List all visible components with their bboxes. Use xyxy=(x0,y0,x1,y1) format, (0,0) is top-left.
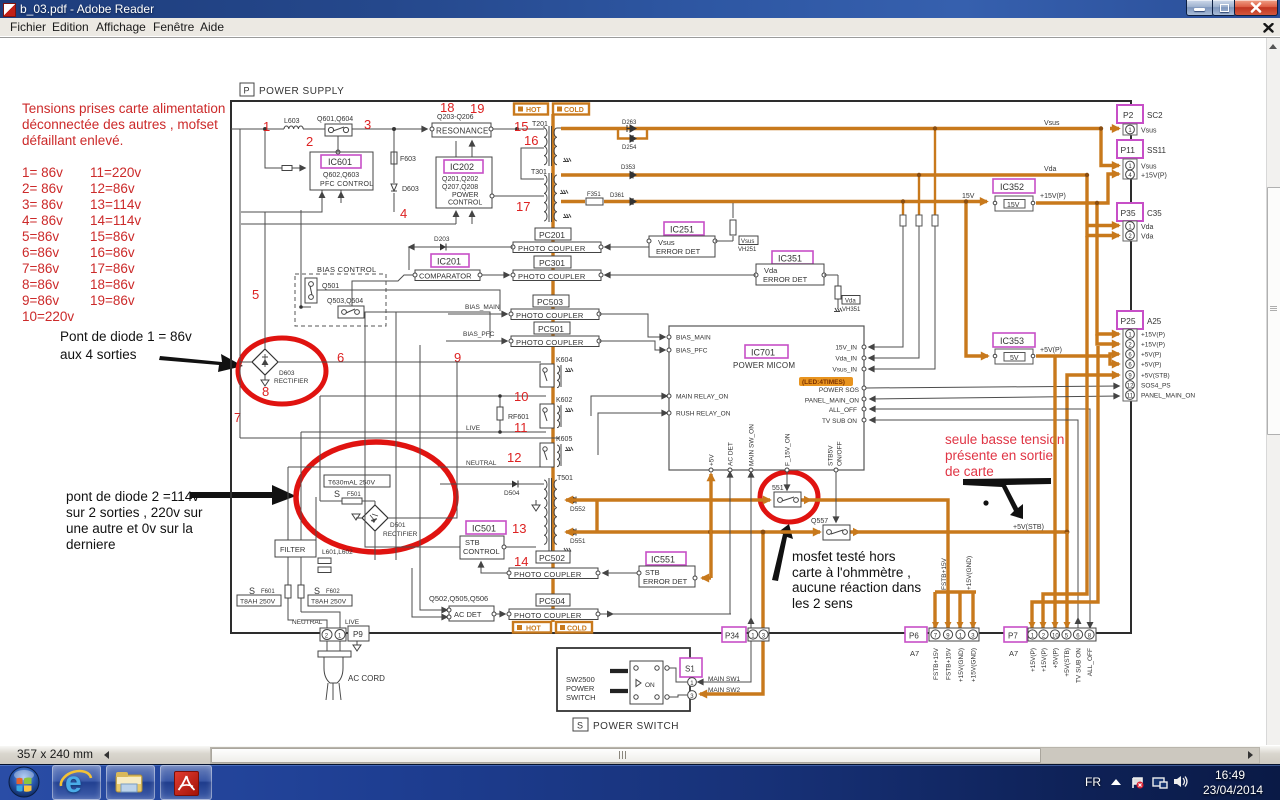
svg-text:PHOTO COUPLER: PHOTO COUPLER xyxy=(518,272,586,281)
junction dots top xyxy=(263,127,267,131)
wire bias_main xyxy=(448,313,507,315)
svg-text:PHOTO COUPLER: PHOTO COUPLER xyxy=(514,611,582,620)
wire: resonance to T201 xyxy=(491,128,544,130)
svg-text:RESONANCE: RESONANCE xyxy=(436,127,488,136)
svg-text:D203: D203 xyxy=(434,236,450,243)
wires filter to fuses xyxy=(288,557,301,620)
orange +5V(STB) riser to P25 pin9 xyxy=(1067,375,1119,532)
svg-text:7=86v: 7=86v xyxy=(22,261,59,276)
orange riser to P7 pin2 xyxy=(1043,236,1087,628)
svg-text:T8AH 250V: T8AH 250V xyxy=(240,599,276,606)
svg-text:MAIN SW_ON: MAIN SW_ON xyxy=(749,424,756,466)
svg-text:VH251: VH251 xyxy=(738,247,757,253)
IC701 bottom pins xyxy=(709,424,844,472)
wires P9 to fuses xyxy=(301,612,340,628)
vertical scrollbar xyxy=(1266,38,1280,745)
wire: resonance input xyxy=(422,128,427,130)
svg-text:+15V(P): +15V(P) xyxy=(1040,193,1066,200)
orange riser to P7 pin1 xyxy=(1032,346,1098,628)
diode D263 xyxy=(622,120,637,132)
svg-text:P34: P34 xyxy=(725,632,740,641)
opto PC201 xyxy=(535,228,571,240)
wire POWER SOS to P25 pin12 xyxy=(866,386,1119,388)
IC701 left pins xyxy=(667,335,731,418)
wire LIVE line xyxy=(301,432,546,540)
svg-text:P: P xyxy=(244,86,250,96)
svg-text:HOT: HOT xyxy=(526,626,542,633)
svg-text:ON: ON xyxy=(645,682,655,689)
svg-text:POWER SWITCH: POWER SWITCH xyxy=(593,721,679,732)
black arrow to +5V(STB) xyxy=(963,478,1051,519)
svg-text:P7: P7 xyxy=(1008,632,1018,641)
diode D603 zener xyxy=(391,184,419,193)
svg-text:2= 86v: 2= 86v xyxy=(22,181,63,196)
orange riser to P7 pin5 xyxy=(1065,532,1068,628)
wire ALL_OFF loop to P7 pin8 xyxy=(870,409,1090,628)
sense fuse boxes xyxy=(900,215,938,226)
fuse T630mAL box xyxy=(324,475,390,487)
isolation barrier orange vertical xyxy=(551,114,554,622)
orange F_15V rail through S51 xyxy=(566,498,770,501)
wire: branch to IC601 xyxy=(265,129,305,168)
svg-text:S1: S1 xyxy=(685,665,695,674)
AC cord plug xyxy=(324,641,385,700)
opto PC502 xyxy=(536,551,570,563)
wire STB5V drop xyxy=(835,472,837,522)
black arrow to D603 circle xyxy=(159,354,243,372)
AC cord strain bar xyxy=(318,651,351,657)
junction dots orange xyxy=(901,126,1103,205)
svg-text:12=86v: 12=86v xyxy=(90,181,135,196)
svg-text:RECTIFIER: RECTIFIER xyxy=(383,531,418,538)
svg-text:PC503: PC503 xyxy=(537,297,563,307)
ground under D603 xyxy=(261,375,269,386)
opto PC504 xyxy=(536,594,570,606)
connector P2 xyxy=(1117,105,1163,135)
svg-text:PANEL_MAIN_ON: PANEL_MAIN_ON xyxy=(1141,393,1195,400)
svg-text:10: 10 xyxy=(1052,634,1059,640)
connector P7 xyxy=(1004,627,1096,658)
svg-text:IC201: IC201 xyxy=(437,257,461,267)
svg-text:seule basse tension: seule basse tension xyxy=(945,432,1064,447)
svg-text:IC701: IC701 xyxy=(751,348,775,358)
orange diode loop D263 D254 xyxy=(618,129,647,139)
transformer T201 xyxy=(532,121,571,166)
wire opto4 to IC701 xyxy=(599,341,665,350)
svg-text:F603: F603 xyxy=(400,156,416,163)
svg-text:+5V(STB): +5V(STB) xyxy=(1013,524,1044,531)
svg-text:P2: P2 xyxy=(1123,110,1134,120)
svg-text:BIAS_MAIN: BIAS_MAIN xyxy=(465,304,500,311)
svg-text:P11: P11 xyxy=(1121,145,1136,155)
svg-text:15=86v: 15=86v xyxy=(90,229,135,244)
svg-text:18=86v: 18=86v xyxy=(90,277,135,292)
svg-text:POWER SUPPLY: POWER SUPPLY xyxy=(259,86,344,97)
svg-text:ALL_OFF: ALL_OFF xyxy=(829,407,857,414)
svg-text:PC201: PC201 xyxy=(539,230,565,240)
svg-text:D361: D361 xyxy=(610,193,625,199)
svg-text:SW2500: SW2500 xyxy=(566,675,595,684)
svg-text:+5V(P): +5V(P) xyxy=(1141,362,1161,369)
IC701 POWER MICOM xyxy=(669,326,864,470)
wire opto2 to IC351 xyxy=(605,274,756,276)
svg-text:K604: K604 xyxy=(556,357,572,364)
svg-text:D353: D353 xyxy=(621,165,636,171)
opto PC501 xyxy=(534,322,570,334)
svg-text:D263: D263 xyxy=(622,120,637,126)
svg-text:PC301: PC301 xyxy=(539,258,565,268)
schematic main border xyxy=(231,101,1131,633)
svg-text:+5V(STB): +5V(STB) xyxy=(1064,648,1071,677)
orange P6 bar and drops xyxy=(935,592,976,628)
wire: IC202 to T301 xyxy=(492,195,544,197)
svg-text:POWER: POWER xyxy=(452,192,478,199)
svg-text:les 2 sens: les 2 sens xyxy=(792,596,853,611)
svg-text:+5V(P): +5V(P) xyxy=(1141,352,1161,359)
svg-text:+5V: +5V xyxy=(709,454,716,466)
svg-text:A7: A7 xyxy=(910,649,919,658)
sense wires to IC701 xyxy=(869,226,935,369)
svg-text:PANEL_MAIN_ON: PANEL_MAIN_ON xyxy=(805,398,859,405)
svg-text:POWER: POWER xyxy=(566,684,595,693)
inductor L603 xyxy=(284,126,303,129)
svg-text:S: S xyxy=(334,489,340,499)
svg-text:C35: C35 xyxy=(1147,209,1162,218)
svg-text:+15V(GND): +15V(GND) xyxy=(966,556,973,590)
svg-text:BIAS CONTROL: BIAS CONTROL xyxy=(317,265,376,274)
svg-text:L601,L602: L601,L602 xyxy=(322,549,353,556)
svg-text:+15V(GND): +15V(GND) xyxy=(958,648,965,682)
svg-text:4= 86v: 4= 86v xyxy=(22,213,63,228)
COLD label top xyxy=(553,104,589,115)
svg-text:T8AH 250V: T8AH 250V xyxy=(311,599,347,606)
diode D551 xyxy=(570,529,586,546)
diode D361 xyxy=(610,193,636,205)
svg-text:Vda: Vda xyxy=(1141,234,1154,241)
regulator IC352 xyxy=(993,179,1035,211)
resistor VR351 xyxy=(824,275,861,313)
svg-text:IC601: IC601 xyxy=(328,157,352,167)
svg-text:13: 13 xyxy=(512,521,526,536)
svg-text:D551: D551 xyxy=(570,538,586,545)
orange STB rail through Q557 xyxy=(566,530,820,533)
svg-text:6=86v: 6=86v xyxy=(22,245,59,260)
RESONANCE block xyxy=(430,114,493,137)
svg-text:Vsus: Vsus xyxy=(1141,128,1157,135)
svg-text:15V_IN: 15V_IN xyxy=(835,345,857,352)
regulator IC353 xyxy=(993,333,1035,364)
svg-text:AC DET: AC DET xyxy=(728,442,735,466)
IC601 PFC control xyxy=(310,150,373,190)
svg-text:mosfet testé hors: mosfet testé hors xyxy=(792,549,896,564)
svg-text:LIVE: LIVE xyxy=(466,425,481,432)
diode D504 xyxy=(440,481,544,498)
svg-text:IC353: IC353 xyxy=(1000,336,1024,346)
opto coupler row 4 xyxy=(509,336,601,347)
COLD label bottom xyxy=(556,622,592,633)
svg-text:9: 9 xyxy=(454,350,461,365)
svg-text:Vda: Vda xyxy=(845,299,856,305)
wire bias left drop xyxy=(301,210,311,307)
connector P34 xyxy=(722,627,769,642)
svg-text:F601: F601 xyxy=(261,589,275,595)
wire: under IC202 xyxy=(241,212,472,224)
fuse F351 xyxy=(586,192,603,205)
svg-text:2: 2 xyxy=(306,134,313,149)
svg-text:CONTROL: CONTROL xyxy=(448,200,482,207)
red ellipse around S51 xyxy=(760,472,818,522)
svg-text:ERROR DET: ERROR DET xyxy=(656,247,701,256)
connector P9 xyxy=(320,626,369,641)
svg-text:S: S xyxy=(577,721,583,731)
svg-text:Vsus: Vsus xyxy=(658,238,675,247)
orange Vda line xyxy=(561,173,1087,176)
svg-text:FSTB+15V: FSTB+15V xyxy=(946,647,953,680)
ground at P9 xyxy=(353,641,361,651)
STB ERROR DET block xyxy=(637,552,697,587)
svg-text:STB5V: STB5V xyxy=(828,445,835,466)
svg-text:A7: A7 xyxy=(1009,649,1018,658)
rectifier D603 bridge xyxy=(252,349,309,385)
relay K604 xyxy=(540,357,573,388)
svg-text:Vda: Vda xyxy=(1044,166,1057,173)
wire rush relay xyxy=(598,413,667,455)
ground left of D501 xyxy=(352,514,362,520)
svg-text:F351: F351 xyxy=(587,192,601,198)
wire TV SUB ON loop to P7 pin6 xyxy=(870,420,1078,628)
svg-text:IC352: IC352 xyxy=(1000,182,1024,192)
svg-text:12: 12 xyxy=(507,450,521,465)
opto coupler row 6 xyxy=(507,609,600,620)
annotation dot xyxy=(983,500,988,505)
connector P35 xyxy=(1117,203,1162,241)
opto coupler row 1 xyxy=(511,242,603,253)
svg-text:13=114v: 13=114v xyxy=(90,197,141,212)
black annotation: pont de diode 1 xyxy=(60,329,192,362)
wire switch to S1 xyxy=(669,668,687,682)
diode D552 xyxy=(570,497,586,514)
svg-text:14: 14 xyxy=(514,554,528,569)
wire MAIN SW_ON riser xyxy=(698,472,751,682)
transistor Q501 xyxy=(305,278,339,303)
wire line 10 xyxy=(320,396,546,501)
svg-text:3= 86v: 3= 86v xyxy=(22,197,63,212)
opto coupler row 3 xyxy=(509,309,601,320)
wire opto6 to AC DET riser xyxy=(600,613,731,615)
svg-text:COLD: COLD xyxy=(564,107,584,114)
orange +15V(P) line to P11 pin4 xyxy=(1036,174,1119,203)
AC DET block xyxy=(429,594,496,621)
red annotation: voltage list xyxy=(22,165,141,324)
BIAS CONTROL dashed box xyxy=(295,265,386,326)
svg-text:ALL_OFF: ALL_OFF xyxy=(1087,648,1094,676)
orange +5V(P) branches to P25 xyxy=(1036,354,1119,356)
wire D501 right xyxy=(388,362,457,518)
wire opto1 to IC251 xyxy=(605,246,649,248)
svg-text:+15V(P): +15V(P) xyxy=(1141,332,1165,339)
relay K605 xyxy=(540,436,573,467)
svg-text:FSTB+15V: FSTB+15V xyxy=(941,557,948,590)
vertical labels above P6 xyxy=(941,556,973,590)
svg-text:1= 86v: 1= 86v xyxy=(22,165,63,180)
svg-text:D603: D603 xyxy=(402,186,419,193)
svg-text:une autre et 0v sur la: une autre et 0v sur la xyxy=(66,521,193,536)
transformer T301 xyxy=(531,169,571,222)
svg-text:COMPARATOR: COMPARATOR xyxy=(419,272,472,281)
red annotation: tensions note xyxy=(22,101,225,148)
power switch heading xyxy=(573,718,679,732)
svg-text:BIAS_PFC: BIAS_PFC xyxy=(676,348,708,355)
svg-text:A25: A25 xyxy=(1147,317,1162,326)
svg-text:IC202: IC202 xyxy=(450,162,474,172)
LED 4TIMES highlight xyxy=(799,377,853,386)
svg-text:11: 11 xyxy=(1127,394,1134,400)
wire: top AC line xyxy=(231,128,422,130)
svg-text:PHOTO COUPLER: PHOTO COUPLER xyxy=(516,311,584,320)
svg-text:ERROR DET: ERROR DET xyxy=(763,275,808,284)
diode D203 xyxy=(409,236,513,270)
IC202 power control xyxy=(436,157,494,208)
orange +5V riser from error det xyxy=(702,576,711,579)
orange sense drop 15V xyxy=(902,202,904,216)
svg-text:F_15V_ON: F_15V_ON xyxy=(785,433,792,466)
svg-text:carte à l'ohmmètre ,: carte à l'ohmmètre , xyxy=(792,565,911,580)
svg-text:BIAS_MAIN: BIAS_MAIN xyxy=(676,335,711,342)
svg-text:5=86v: 5=86v xyxy=(22,229,59,244)
svg-text:Vda: Vda xyxy=(1141,224,1154,231)
svg-text:8=86v: 8=86v xyxy=(22,277,59,292)
taskbar xyxy=(0,764,1280,800)
svg-text:Vda_IN: Vda_IN xyxy=(835,356,857,363)
diode D353 xyxy=(621,165,636,179)
relay K602 xyxy=(540,397,573,428)
orange trunk to P25 pins 1 2 xyxy=(1097,203,1119,334)
svg-text:+15V(P): +15V(P) xyxy=(1141,342,1165,349)
IC351 error det xyxy=(754,251,826,285)
svg-text:15V: 15V xyxy=(962,193,975,200)
COMPARATOR block xyxy=(352,270,509,306)
orange feed to IC353 xyxy=(966,202,988,357)
svg-text:18: 18 xyxy=(440,100,454,115)
svg-text:11=220v: 11=220v xyxy=(90,165,141,180)
red ellipse around D603 xyxy=(238,338,326,404)
svg-text:déconnectée des autres , mofse: déconnectée des autres , mofset xyxy=(22,117,218,132)
svg-text:Q557: Q557 xyxy=(811,518,828,525)
svg-text:P35: P35 xyxy=(1121,208,1136,218)
status bar xyxy=(0,745,1280,765)
wire D603 left to border xyxy=(240,129,560,438)
IC251 error det xyxy=(647,222,717,257)
svg-text:5V: 5V xyxy=(1010,355,1019,362)
svg-text:+5V(P): +5V(P) xyxy=(1053,648,1060,668)
red annotation: seule basse tension xyxy=(945,432,1064,479)
opto coupler row 2 xyxy=(511,270,603,281)
wire PANEL_MAIN_ON to P25 pin11 xyxy=(870,396,1119,399)
svg-text:T501: T501 xyxy=(557,475,573,482)
ground near T501 xyxy=(532,500,540,511)
black arrow up to S51 xyxy=(772,524,793,581)
wire: IC601 pin to Q relay xyxy=(337,136,339,152)
svg-text:aux 4 sorties: aux 4 sorties xyxy=(60,347,137,362)
svg-text:POWER SOS: POWER SOS xyxy=(819,387,860,394)
svg-text:SC2: SC2 xyxy=(1147,111,1163,120)
svg-text:SWITCH: SWITCH xyxy=(566,693,596,702)
P7 pin labels xyxy=(1030,648,1094,683)
svg-text:SS11: SS11 xyxy=(1147,146,1167,155)
svg-text:D254: D254 xyxy=(622,145,637,151)
svg-text:PHOTO COUPLER: PHOTO COUPLER xyxy=(516,338,584,347)
fuse F602 xyxy=(298,585,352,606)
wire main relay xyxy=(591,396,667,416)
black arrow to D501 circle xyxy=(190,485,296,505)
svg-text:Q201,Q202: Q201,Q202 xyxy=(442,176,478,183)
wire Q501 to right xyxy=(317,290,500,311)
svg-text:ERROR DET: ERROR DET xyxy=(643,577,688,586)
svg-text:K605: K605 xyxy=(556,436,572,443)
svg-text:AC CORD: AC CORD xyxy=(348,674,385,683)
orange Vda drops to P35 xyxy=(1087,175,1119,236)
svg-text:9=86v: 9=86v xyxy=(22,293,59,308)
wire F_15V_ON drop xyxy=(786,472,788,490)
svg-text:PC504: PC504 xyxy=(539,596,565,606)
svg-text:L603: L603 xyxy=(284,118,300,125)
svg-text:16=86v: 16=86v xyxy=(90,245,135,260)
connector P6 xyxy=(905,627,979,658)
svg-text:17=86v: 17=86v xyxy=(90,261,135,276)
svg-text:RF601: RF601 xyxy=(508,414,529,421)
svg-text:D552: D552 xyxy=(570,506,586,513)
opto PC503 xyxy=(533,295,569,307)
STB CONTROL block xyxy=(365,312,536,573)
IC701 right pins xyxy=(805,345,866,426)
HOT label top xyxy=(514,104,548,115)
svg-text:FSTB+15V: FSTB+15V xyxy=(933,647,940,680)
svg-text:P25: P25 xyxy=(1121,316,1136,326)
wire opto5 to STB error det xyxy=(603,572,639,574)
svg-text:IC351: IC351 xyxy=(778,254,802,264)
fuse F501 xyxy=(320,489,375,506)
transistor Q503,Q504 xyxy=(327,298,364,318)
svg-text:10: 10 xyxy=(514,389,528,404)
svg-text:LIVE: LIVE xyxy=(345,619,360,626)
svg-text:Tensions prises carte alimenta: Tensions prises carte alimentation xyxy=(22,101,225,116)
diode D254 xyxy=(622,135,637,151)
svg-text:PHOTO COUPLER: PHOTO COUPLER xyxy=(518,244,586,253)
svg-text:551: 551 xyxy=(772,485,784,492)
svg-text:Q602,Q603: Q602,Q603 xyxy=(323,172,359,179)
orange 15V line xyxy=(561,200,987,203)
svg-text:PFC CONTROL: PFC CONTROL xyxy=(320,181,373,188)
rectifier D501 bridge xyxy=(362,505,418,538)
svg-text:17: 17 xyxy=(516,199,530,214)
relay S51 xyxy=(772,485,801,507)
wire AC DET right xyxy=(496,613,505,615)
svg-text:NEUTRAL: NEUTRAL xyxy=(466,460,497,467)
svg-text:STB: STB xyxy=(465,538,480,547)
svg-text:Q502,Q505,Q506: Q502,Q505,Q506 xyxy=(429,594,488,603)
svg-text:de carte: de carte xyxy=(945,464,994,479)
fuse F601 xyxy=(237,585,291,606)
svg-text:Q203-Q206: Q203-Q206 xyxy=(437,114,474,121)
svg-text:+5V(STB): +5V(STB) xyxy=(1141,373,1170,380)
black annotation: pont de diode 2 xyxy=(66,489,203,552)
orange sense drop Vsus xyxy=(934,129,936,216)
connector P11 xyxy=(1117,140,1167,180)
wire NEUTRAL line xyxy=(288,467,541,540)
svg-text:Q501: Q501 xyxy=(322,283,339,290)
svg-text:+15V(P): +15V(P) xyxy=(1041,648,1048,672)
svg-text:11: 11 xyxy=(514,420,528,435)
